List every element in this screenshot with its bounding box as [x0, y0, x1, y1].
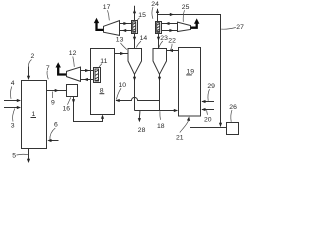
svg-text:25: 25: [182, 4, 190, 11]
box 19: [179, 48, 201, 117]
svg-text:16: 16: [63, 106, 71, 113]
node label 15: [137, 12, 146, 20]
node label 3: [11, 109, 15, 130]
svg-text:2: 2: [31, 53, 35, 60]
black exhaust arrow of turbine 12: [56, 62, 67, 74]
wire HX24 to turbine25 lower: [162, 29, 178, 32]
wire cyclone22 dipleg: [158, 74, 161, 110]
wire stream 28 drain: [138, 111, 141, 123]
node label 11: [99, 58, 108, 68]
wire line B diplegs to box19: [135, 109, 179, 112]
svg-text:26: 26: [229, 104, 237, 111]
svg-text:6: 6: [54, 122, 58, 129]
box 8: [91, 49, 115, 115]
svg-text:7: 7: [46, 65, 50, 72]
wire box8 to cyclone13 inlet: [115, 52, 129, 55]
wire turbine25 to HX24 upper: [162, 22, 178, 25]
wire HX24 to cyclone22 top: [157, 34, 160, 49]
wire line 27 recycle: [158, 13, 223, 127]
node label 25: [182, 4, 190, 22]
node label 24: [151, 1, 159, 19]
wire stream 3 into vessel left: [4, 106, 21, 109]
svg-text:18: 18: [157, 123, 165, 130]
wire turbine17 to HX15 upper: [120, 22, 132, 25]
wire HX15 riser with up arrow: [133, 6, 136, 21]
node label 14: [136, 35, 147, 47]
cyclone 22: [153, 49, 167, 75]
wire stream 5 from vessel bottom: [27, 149, 30, 164]
turbine 25: [178, 22, 191, 31]
heat exchanger HX15: [132, 21, 138, 34]
node label 10: [116, 82, 126, 100]
node label 27: [221, 24, 244, 31]
node label 29: [207, 83, 215, 101]
svg-text:5: 5: [12, 153, 16, 160]
wire turbine12 to HX11 upper: [81, 69, 94, 72]
wire HX11 to turbine12 lower: [81, 78, 94, 81]
node label 17: [103, 4, 111, 20]
wire cyclone13 dipleg: [133, 74, 136, 110]
turbine 12: [67, 67, 81, 81]
black exhaust arrow of turbine 25: [191, 18, 200, 27]
wire stream 6 into vessel right: [47, 139, 58, 142]
wire drain to box 26: [190, 127, 227, 129]
heat exchanger HX11: [94, 68, 101, 83]
node label 12: [69, 50, 77, 67]
node label 21 with arrow leader to box19 bottom: [176, 117, 190, 142]
node label 13: [116, 37, 127, 50]
node label 5: [12, 153, 28, 160]
wire HX15 to cyclone13 top: [133, 34, 136, 49]
wire box16 to box8 bottom: [72, 97, 104, 122]
node label 4: [10, 80, 14, 99]
svg-text:13: 13: [116, 37, 124, 44]
svg-text:28: 28: [138, 127, 146, 134]
svg-text:23: 23: [160, 35, 168, 42]
node label 6: [50, 122, 58, 140]
wire stream 2 into vessel top: [27, 67, 30, 81]
wire 9 vessel to box 16: [47, 89, 67, 92]
heat exchanger HX24: [156, 22, 162, 34]
node label 9: [51, 92, 55, 107]
svg-text:12: 12: [69, 50, 77, 57]
wire stream 4 into vessel left: [4, 99, 21, 102]
wire box19 to cyclone22 inlet: [167, 49, 179, 52]
svg-text:24: 24: [151, 1, 159, 8]
svg-text:29: 29: [207, 83, 215, 90]
svg-text:4: 4: [11, 80, 15, 87]
node label 23: [159, 35, 168, 48]
box 26: [227, 123, 239, 135]
vessel 1: [22, 81, 47, 149]
svg-text:22: 22: [168, 38, 176, 45]
node label 26: [229, 104, 237, 122]
black exhaust arrow of turbine 17: [94, 18, 104, 30]
node label 18: [157, 111, 165, 130]
svg-text:27: 27: [236, 24, 244, 31]
node label 7: [46, 65, 50, 79]
turbine 17: [104, 21, 120, 36]
node label 2: [28, 53, 34, 67]
wire stream 20 into box19 right: [201, 108, 214, 111]
wire HX24 riser with up arrow: [156, 9, 159, 22]
svg-text:21: 21: [176, 135, 184, 142]
svg-text:1: 1: [32, 111, 36, 118]
node label 16: [63, 97, 71, 112]
node label 28: [138, 127, 146, 134]
svg-text:10: 10: [119, 82, 127, 89]
wire HX15 to turbine17 lower: [120, 29, 132, 32]
wire stream 29 into box19 right: [201, 100, 214, 103]
svg-text:17: 17: [103, 4, 111, 11]
svg-text:9: 9: [51, 100, 55, 107]
node label 20: [204, 110, 212, 123]
node label 22: [168, 38, 176, 51]
svg-text:20: 20: [204, 116, 212, 123]
wire line A dipleg22 to box8 with hop: [116, 97, 160, 102]
svg-text:3: 3: [11, 123, 15, 130]
cyclone 13: [128, 49, 142, 75]
box 16: [67, 85, 78, 97]
